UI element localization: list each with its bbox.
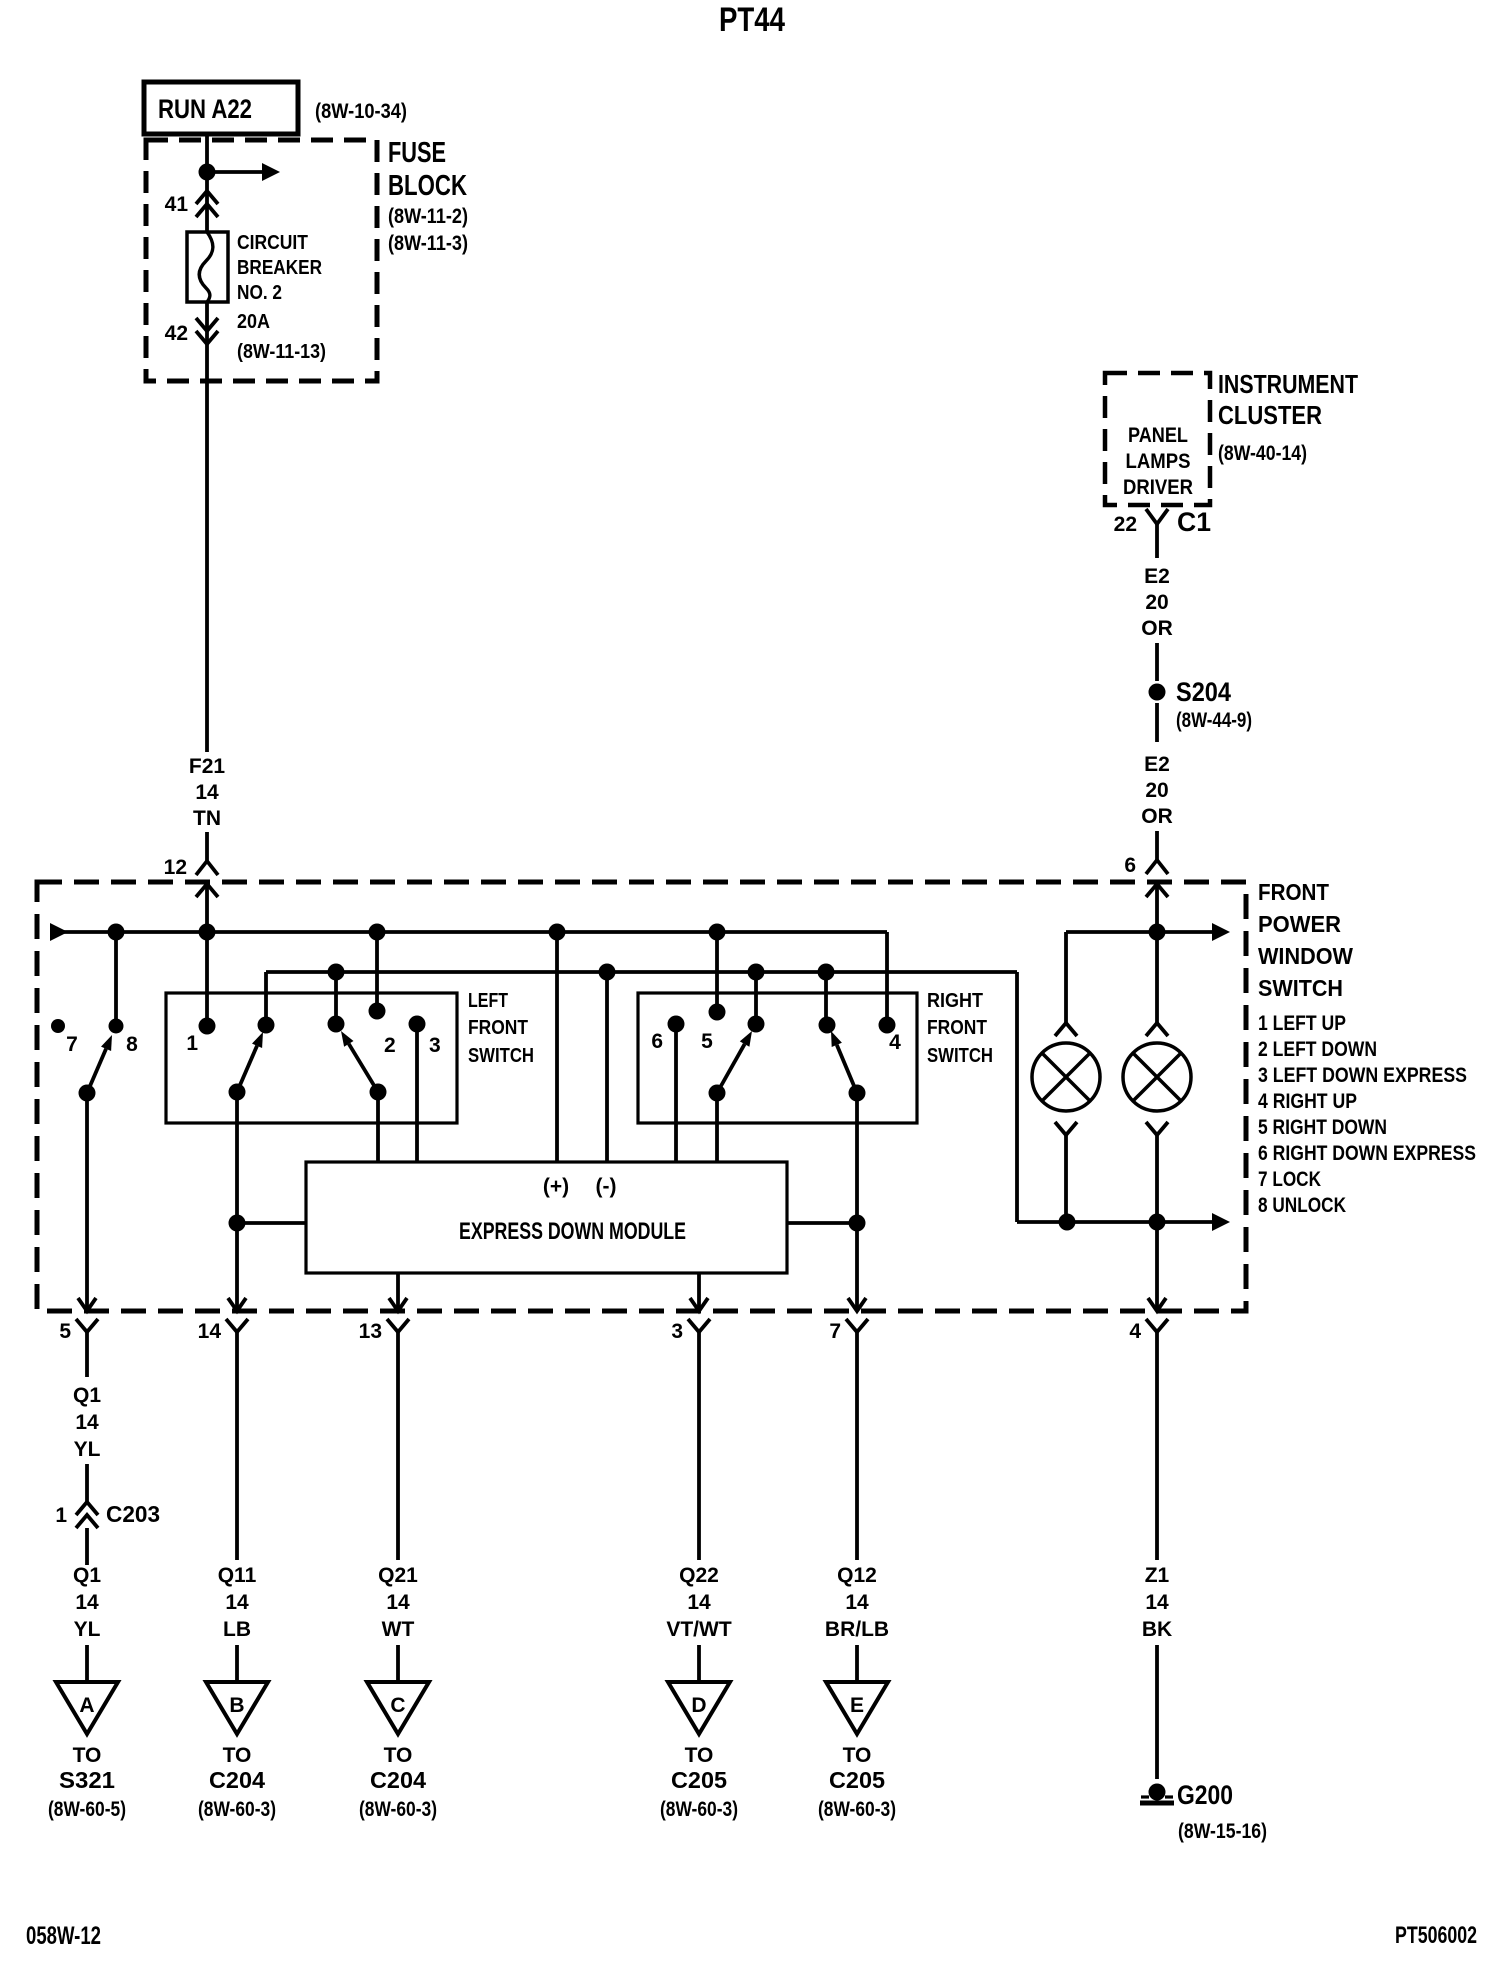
- lock switch arm: [79, 1085, 96, 1102]
- wire arm2 to module: [376, 1092, 380, 1162]
- svg-text:POWER: POWER: [1258, 911, 1341, 937]
- wire to pin 5 exit: [85, 1093, 89, 1311]
- svg-text:(+): (+): [543, 1175, 569, 1198]
- svg-text:3 LEFT DOWN EXPRESS: 3 LEFT DOWN EXPRESS: [1258, 1064, 1467, 1087]
- splice S204: [1149, 684, 1166, 701]
- svg-text:14: 14: [195, 781, 219, 804]
- svg-text:FRONT: FRONT: [1258, 879, 1330, 905]
- svg-text:(8W-11-3): (8W-11-3): [388, 232, 468, 255]
- contact pin 5: [709, 1004, 726, 1021]
- svg-text:14: 14: [75, 1411, 99, 1434]
- wire arm1 to pin 14 exit: [235, 1092, 239, 1311]
- svg-text:F21: F21: [189, 755, 226, 778]
- connector pin 6: [1146, 860, 1168, 874]
- svg-text:D: D: [691, 1694, 706, 1717]
- svg-text:BREAKER: BREAKER: [237, 257, 322, 279]
- svg-text:FUSE: FUSE: [388, 137, 446, 169]
- svg-text:(8W-15-16): (8W-15-16): [1178, 1820, 1267, 1843]
- right front switch box: [638, 993, 917, 1123]
- wire armA to module: [715, 1093, 719, 1162]
- exit connector pin 7: [848, 1298, 866, 1311]
- contact pin 2: [369, 1003, 386, 1020]
- ground G200: [1149, 1784, 1166, 1801]
- lamp return rail: [1017, 1220, 1213, 1224]
- illumination lamp left: [1055, 1023, 1077, 1036]
- svg-text:C1: C1: [1177, 507, 1211, 537]
- right down arm: [709, 1085, 726, 1102]
- svg-text:VT/WT: VT/WT: [666, 1618, 731, 1641]
- off-page connector E to C205: [855, 1645, 859, 1682]
- contact pin 3: [409, 1016, 426, 1033]
- svg-text:TO: TO: [384, 1744, 413, 1767]
- svg-text:C203: C203: [106, 1501, 160, 1527]
- svg-text:OR: OR: [1141, 805, 1173, 828]
- svg-text:20A: 20A: [237, 311, 270, 333]
- wire RUN A22 to circuit breaker: [205, 134, 209, 233]
- wire to ground: [1155, 1645, 1159, 1779]
- contact pin 6: [668, 1016, 685, 1033]
- wire column: [855, 1332, 859, 1560]
- svg-text:TO: TO: [73, 1744, 102, 1767]
- svg-text:RUN A22: RUN A22: [158, 94, 252, 124]
- wire lamp feed: [1066, 930, 1157, 934]
- contact pin 8: [109, 1019, 124, 1034]
- right down contact: [748, 1016, 765, 1033]
- svg-text:(8W-60-3): (8W-60-3): [660, 1798, 738, 1821]
- svg-text:1 LEFT UP: 1 LEFT UP: [1258, 1012, 1346, 1035]
- svg-text:(-): (-): [596, 1175, 617, 1198]
- svg-text:058W-12: 058W-12: [26, 1922, 101, 1950]
- instrument cluster dashed box: [1105, 373, 1210, 505]
- riser to pin 2: [375, 932, 379, 1011]
- svg-text:5 RIGHT DOWN: 5 RIGHT DOWN: [1258, 1116, 1387, 1139]
- express down module box: [306, 1162, 787, 1273]
- svg-text:NO. 2: NO. 2: [237, 282, 282, 304]
- svg-text:Z1: Z1: [1145, 1564, 1170, 1587]
- svg-text:SWITCH: SWITCH: [1258, 975, 1343, 1001]
- exit connector pin 3: [690, 1298, 708, 1311]
- svg-text:C205: C205: [671, 1767, 727, 1793]
- svg-text:Q22: Q22: [679, 1564, 719, 1587]
- module right stub: [787, 1221, 857, 1225]
- left up arm: [229, 1084, 246, 1101]
- svg-text:3: 3: [671, 1320, 683, 1343]
- svg-text:RIGHT: RIGHT: [927, 990, 983, 1012]
- fuse block dashed box: [146, 140, 377, 381]
- wire: [1155, 643, 1159, 681]
- svg-text:8: 8: [126, 1033, 138, 1056]
- wire: [85, 1464, 89, 1504]
- svg-text:14: 14: [1145, 1591, 1169, 1614]
- riser to pin 1: [205, 932, 209, 1026]
- exit connector pin 5: [78, 1298, 96, 1311]
- illumination lamp right: [1146, 1023, 1168, 1036]
- svg-text:B: B: [229, 1694, 244, 1717]
- svg-text:SWITCH: SWITCH: [468, 1045, 534, 1067]
- exit connector pin 4: [1148, 1298, 1166, 1311]
- svg-text:TO: TO: [223, 1744, 252, 1767]
- svg-text:BLOCK: BLOCK: [388, 170, 467, 202]
- svg-text:14: 14: [845, 1591, 869, 1614]
- module output pin 3: [697, 1273, 701, 1311]
- svg-text:(8W-44-9): (8W-44-9): [1176, 709, 1252, 732]
- svg-text:Q21: Q21: [378, 1564, 418, 1587]
- off-page connector D to C205: [697, 1645, 701, 1682]
- svg-text:14: 14: [687, 1591, 711, 1614]
- svg-text:14: 14: [198, 1320, 222, 1343]
- off-page connector A to S321: [85, 1645, 89, 1682]
- svg-text:LAMPS: LAMPS: [1126, 450, 1191, 473]
- svg-text:TN: TN: [193, 807, 221, 830]
- svg-text:SWITCH: SWITCH: [927, 1045, 993, 1067]
- svg-text:G200: G200: [1177, 1780, 1233, 1810]
- svg-text:C204: C204: [370, 1767, 426, 1793]
- power source box RUN A22: [144, 82, 298, 134]
- left down arm: [370, 1084, 387, 1101]
- svg-text:3: 3: [429, 1034, 441, 1057]
- svg-text:(8W-10-34): (8W-10-34): [315, 100, 407, 123]
- svg-text:PANEL: PANEL: [1128, 424, 1188, 447]
- wire F21 down: [205, 302, 209, 752]
- svg-text:OR: OR: [1141, 617, 1173, 640]
- svg-text:S321: S321: [59, 1767, 115, 1793]
- svg-text:PT506002: PT506002: [1395, 1922, 1477, 1949]
- svg-text:7: 7: [66, 1033, 78, 1056]
- contact pin 1: [199, 1018, 216, 1035]
- wire column: [697, 1332, 701, 1560]
- svg-text:BK: BK: [1142, 1618, 1172, 1641]
- svg-text:22: 22: [1114, 513, 1137, 536]
- svg-text:14: 14: [386, 1591, 410, 1614]
- svg-text:Q1: Q1: [73, 1564, 101, 1587]
- connector pin 42: [196, 318, 218, 331]
- svg-text:4 RIGHT UP: 4 RIGHT UP: [1258, 1090, 1357, 1113]
- svg-text:YL: YL: [74, 1618, 101, 1641]
- svg-text:YL: YL: [74, 1438, 101, 1461]
- exit connector pin 14: [228, 1298, 246, 1311]
- svg-text:12: 12: [164, 856, 187, 879]
- svg-text:WINDOW: WINDOW: [1258, 943, 1354, 969]
- svg-text:BR/LB: BR/LB: [825, 1618, 889, 1641]
- riser to pin 8: [114, 932, 118, 1026]
- svg-text:13: 13: [359, 1320, 382, 1343]
- connector pin 12: [196, 861, 218, 875]
- svg-text:2: 2: [384, 1034, 396, 1057]
- svg-text:INSTRUMENT: INSTRUMENT: [1218, 369, 1358, 399]
- svg-text:FRONT: FRONT: [927, 1017, 987, 1039]
- svg-text:42: 42: [165, 322, 188, 345]
- svg-text:CLUSTER: CLUSTER: [1218, 400, 1322, 430]
- svg-text:TO: TO: [685, 1744, 714, 1767]
- module output pin 13: [396, 1273, 400, 1311]
- svg-text:1: 1: [55, 1504, 67, 1527]
- right up arm: [849, 1085, 866, 1102]
- svg-text:7: 7: [829, 1320, 841, 1343]
- junction dots on bus: [108, 924, 125, 941]
- svg-text:DRIVER: DRIVER: [1123, 476, 1193, 499]
- svg-text:LB: LB: [223, 1618, 251, 1641]
- svg-text:20: 20: [1145, 591, 1168, 614]
- svg-text:Q1: Q1: [73, 1384, 101, 1407]
- svg-text:14: 14: [75, 1591, 99, 1614]
- connector pin 41: [196, 191, 218, 204]
- riser to module plus: [555, 932, 559, 1162]
- right up contact: [819, 1017, 836, 1034]
- left up contact: [258, 1017, 275, 1034]
- svg-text:EXPRESS DOWN MODULE: EXPRESS DOWN MODULE: [459, 1218, 686, 1245]
- junction dot: [199, 164, 216, 181]
- off-page connector C to C204: [396, 1645, 400, 1682]
- svg-text:1: 1: [186, 1032, 198, 1055]
- wire to switch pin 12: [205, 832, 209, 861]
- svg-text:4: 4: [1129, 1320, 1141, 1343]
- svg-text:6: 6: [651, 1030, 663, 1053]
- svg-text:C: C: [390, 1694, 405, 1717]
- svg-text:TO: TO: [843, 1744, 872, 1767]
- exit connector pin 13: [389, 1298, 407, 1311]
- svg-text:FRONT: FRONT: [468, 1017, 528, 1039]
- branch arrow right: [207, 170, 263, 174]
- svg-text:WT: WT: [382, 1618, 415, 1641]
- svg-text:Q12: Q12: [837, 1564, 877, 1587]
- svg-text:LEFT: LEFT: [468, 990, 508, 1012]
- svg-text:(8W-60-3): (8W-60-3): [818, 1798, 896, 1821]
- svg-text:S204: S204: [1176, 677, 1231, 707]
- svg-text:5: 5: [59, 1320, 71, 1343]
- svg-text:2 LEFT DOWN: 2 LEFT DOWN: [1258, 1038, 1377, 1061]
- svg-text:C205: C205: [829, 1767, 885, 1793]
- svg-text:E: E: [850, 1694, 864, 1717]
- svg-text:CIRCUIT: CIRCUIT: [237, 232, 308, 254]
- svg-text:(8W-11-13): (8W-11-13): [237, 341, 326, 363]
- svg-text:41: 41: [165, 193, 189, 216]
- svg-text:5: 5: [701, 1030, 713, 1053]
- svg-text:(8W-60-3): (8W-60-3): [359, 1798, 437, 1821]
- riser to pin 5: [715, 932, 719, 1012]
- bus wire switched feed: [264, 972, 268, 1025]
- contact pin 7: [51, 1019, 65, 1033]
- wire column: [235, 1332, 239, 1560]
- svg-text:8 UNLOCK: 8 UNLOCK: [1258, 1194, 1346, 1217]
- circuit breaker No.2: [187, 232, 228, 302]
- left down contact: [328, 1016, 345, 1033]
- wire column: [396, 1332, 400, 1560]
- connector C203 pin 1: [76, 1502, 98, 1515]
- svg-text:(8W-40-14): (8W-40-14): [1218, 442, 1307, 465]
- svg-text:C204: C204: [209, 1767, 265, 1793]
- svg-text:7 LOCK: 7 LOCK: [1258, 1168, 1321, 1191]
- svg-text:PT44: PT44: [719, 1, 785, 39]
- wire col A upper: [85, 1332, 89, 1377]
- svg-text:4: 4: [889, 1031, 901, 1054]
- svg-text:(8W-60-3): (8W-60-3): [198, 1798, 276, 1821]
- wire to switch pin 6: [1155, 831, 1159, 860]
- off-page connector B to C204: [235, 1645, 239, 1682]
- svg-text:14: 14: [225, 1591, 249, 1614]
- module left stub: [237, 1221, 306, 1225]
- front power window switch dashed box: [37, 882, 1246, 1311]
- svg-text:(8W-11-2): (8W-11-2): [388, 205, 468, 228]
- svg-text:6 RIGHT DOWN EXPRESS: 6 RIGHT DOWN EXPRESS: [1258, 1142, 1476, 1165]
- svg-text:20: 20: [1145, 779, 1168, 802]
- left front switch box: [166, 993, 457, 1123]
- wire: [1155, 703, 1159, 742]
- connector C1 pin 22: [1146, 509, 1168, 524]
- svg-text:E2: E2: [1144, 753, 1170, 776]
- bus wire B+ feed: [50, 923, 68, 941]
- wire column: [1155, 1332, 1159, 1560]
- svg-text:(8W-60-5): (8W-60-5): [48, 1798, 126, 1821]
- svg-text:E2: E2: [1144, 565, 1170, 588]
- contact pin 4: [879, 1017, 896, 1034]
- svg-text:Q11: Q11: [218, 1564, 257, 1587]
- svg-text:6: 6: [1124, 854, 1136, 877]
- wire armB to pin 7 exit: [855, 1093, 859, 1311]
- svg-text:A: A: [79, 1694, 94, 1717]
